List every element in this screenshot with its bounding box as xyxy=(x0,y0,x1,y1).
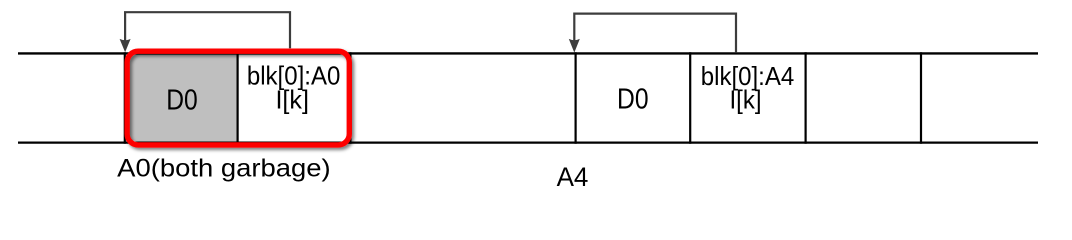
svg-text:D0: D0 xyxy=(617,84,649,116)
wire: empty cell divider xyxy=(920,52,922,144)
node A4: right group cell borders xyxy=(574,52,576,144)
wire: A0 blk cell right border xyxy=(349,52,351,144)
wire: pointer loop arrow over A4 xyxy=(574,14,736,53)
svg-text:D0: D0 xyxy=(166,85,198,117)
wire: array row top line xyxy=(18,52,1038,54)
wire: divider between A4 D0 cell and blk cell xyxy=(689,52,691,144)
svg-text:A4: A4 xyxy=(557,162,589,192)
wire: divider between A0 D0 cell and blk cell xyxy=(237,52,239,144)
wire: A4 blk cell right border xyxy=(804,52,806,144)
wire: array row bottom line xyxy=(18,142,1038,144)
svg-text:I[k]: I[k] xyxy=(730,87,762,115)
svg-text:I[k]: I[k] xyxy=(275,87,309,115)
node A0: left cell left border xyxy=(124,52,126,144)
red highlight rounded box around A0 pair xyxy=(127,51,349,145)
svg-text:A0(both garbage): A0(both garbage) xyxy=(117,154,331,182)
wire: pointer loop arrow over A0 xyxy=(125,12,290,48)
cell A0 data fill (gray D0 cell) xyxy=(127,54,237,141)
arrowhead into A4 xyxy=(569,39,580,53)
arrowhead into A0 xyxy=(120,39,131,52)
